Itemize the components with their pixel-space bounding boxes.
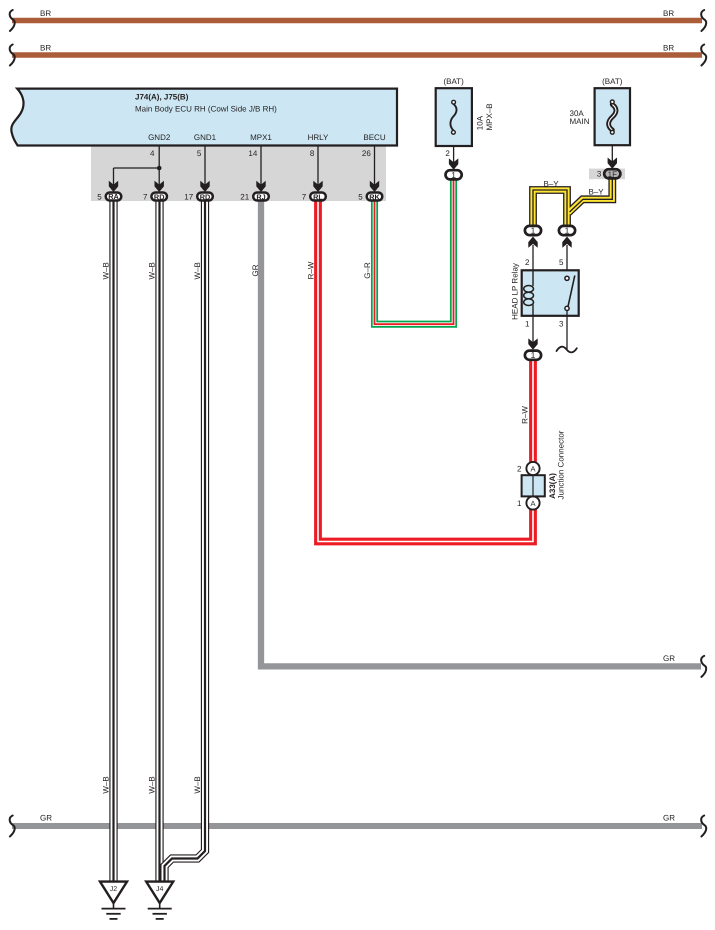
svg-text:2: 2 xyxy=(525,258,530,267)
svg-text:10A: 10A xyxy=(475,115,484,130)
svg-text:J74(A), J75(B): J74(A), J75(B) xyxy=(135,93,189,102)
svg-text:1: 1 xyxy=(531,226,536,236)
svg-text:R–W: R–W xyxy=(307,261,316,279)
svg-text:5: 5 xyxy=(358,193,363,202)
svg-text:W–B: W–B xyxy=(101,262,110,279)
svg-text:B–Y: B–Y xyxy=(543,180,559,189)
svg-text:W–B: W–B xyxy=(147,776,156,793)
svg-text:BR: BR xyxy=(663,44,674,53)
svg-text:26: 26 xyxy=(362,149,371,158)
svg-text:HRLY: HRLY xyxy=(308,133,329,142)
svg-text:RJ: RJ xyxy=(256,192,265,201)
svg-text:1: 1 xyxy=(451,170,456,180)
svg-text:W–B: W–B xyxy=(193,262,202,279)
svg-text:7: 7 xyxy=(302,193,307,202)
svg-text:G–R: G–R xyxy=(363,262,372,279)
svg-text:W–B: W–B xyxy=(101,776,110,793)
svg-text:R–W: R–W xyxy=(520,406,529,424)
svg-text:MAIN: MAIN xyxy=(570,117,590,126)
svg-text:J4: J4 xyxy=(156,886,164,893)
svg-text:1: 1 xyxy=(531,350,536,360)
svg-text:4: 4 xyxy=(150,149,155,158)
svg-text:MPX1: MPX1 xyxy=(250,133,272,142)
svg-text:BR: BR xyxy=(40,9,51,18)
svg-text:RL: RL xyxy=(313,192,323,201)
svg-text:3: 3 xyxy=(597,170,602,179)
svg-text:1F: 1F xyxy=(608,170,617,179)
svg-text:2: 2 xyxy=(517,464,522,473)
svg-text:B–Y: B–Y xyxy=(588,188,604,197)
svg-text:21: 21 xyxy=(240,193,249,202)
svg-text:17: 17 xyxy=(184,193,193,202)
svg-text:RD: RD xyxy=(200,192,211,201)
svg-text:A: A xyxy=(530,464,535,473)
svg-text:W–B: W–B xyxy=(147,262,156,279)
svg-text:BECU: BECU xyxy=(363,133,385,142)
svg-text:W–B: W–B xyxy=(193,776,202,793)
svg-text:3: 3 xyxy=(559,319,564,328)
svg-text:5: 5 xyxy=(197,149,202,158)
svg-text:5: 5 xyxy=(559,258,564,267)
svg-text:HEAD LP Relay: HEAD LP Relay xyxy=(510,263,519,320)
svg-text:BR: BR xyxy=(663,9,674,18)
svg-text:J2: J2 xyxy=(110,886,118,893)
svg-text:5: 5 xyxy=(97,193,102,202)
svg-text:RK: RK xyxy=(369,192,380,201)
svg-text:A33(A): A33(A) xyxy=(548,473,557,499)
svg-text:GR: GR xyxy=(251,264,260,276)
svg-text:GR: GR xyxy=(663,654,675,663)
svg-text:8: 8 xyxy=(310,149,315,158)
svg-text:(BAT): (BAT) xyxy=(443,77,464,86)
svg-text:GND1: GND1 xyxy=(194,133,217,142)
svg-text:GR: GR xyxy=(40,814,52,823)
svg-text:14: 14 xyxy=(248,149,257,158)
svg-text:1: 1 xyxy=(517,499,522,508)
svg-text:BR: BR xyxy=(40,44,51,53)
svg-text:GR: GR xyxy=(663,814,675,823)
svg-text:1: 1 xyxy=(525,319,530,328)
svg-text:MPX–B: MPX–B xyxy=(485,103,494,130)
svg-text:A: A xyxy=(530,499,535,508)
svg-text:RA: RA xyxy=(108,192,119,201)
svg-text:(BAT): (BAT) xyxy=(602,77,623,86)
svg-text:7: 7 xyxy=(143,193,148,202)
svg-text:2: 2 xyxy=(445,149,450,158)
svg-text:1: 1 xyxy=(565,226,570,236)
svg-text:GND2: GND2 xyxy=(148,133,171,142)
svg-text:Main Body ECU RH (Cowl Side J/: Main Body ECU RH (Cowl Side J/B RH) xyxy=(135,105,277,114)
svg-text:RD: RD xyxy=(154,192,165,201)
svg-text:Junction Connector: Junction Connector xyxy=(557,430,566,499)
